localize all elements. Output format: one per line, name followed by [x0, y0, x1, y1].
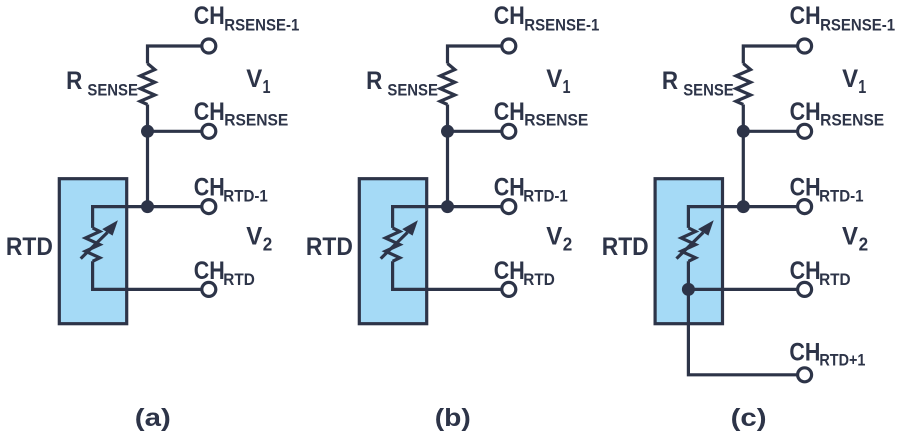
wire: RTD element bottom through bottom tap junction to CH_RTD terminal — [688, 261, 797, 289]
RTD body box — [655, 179, 722, 324]
svg-text:CH: CH — [194, 2, 225, 30]
terminal CH_RTD+1 — [798, 368, 812, 382]
svg-text:RTD-1: RTD-1 — [523, 187, 568, 205]
svg-text:CH: CH — [790, 98, 821, 126]
resistor RSENSE zigzag — [736, 64, 751, 105]
wire: junction down to RTD tap junction — [146, 131, 149, 206]
RTD wiper arrow head — [402, 220, 418, 235]
wire: RTD tap junction to CH_RTD-1 terminal — [148, 205, 203, 208]
svg-text:1: 1 — [563, 77, 571, 97]
circuit (b) labels — [306, 2, 599, 432]
junction dot at RTD top tap node — [441, 200, 454, 213]
wire: RTD element bottom, bend right to CH_RTD terminal — [393, 261, 502, 289]
wire: junction down to RTD tap junction — [742, 131, 745, 206]
svg-text:RTD: RTD — [6, 233, 53, 261]
RTD wiper arrow shaft — [381, 232, 408, 258]
svg-text:RSENSE: RSENSE — [224, 112, 288, 130]
svg-text:SENSE: SENSE — [683, 81, 733, 99]
RTD wiper arrow shaft — [81, 232, 108, 258]
wire: resistor bottom to junction node — [146, 105, 149, 132]
circuit (a) schematic — [59, 39, 216, 324]
terminal CH_RSENSE — [798, 124, 812, 138]
svg-text:2: 2 — [859, 234, 869, 254]
svg-text:CH: CH — [494, 98, 525, 126]
circuit (b) schematic — [359, 39, 516, 324]
svg-text:CH: CH — [494, 257, 525, 285]
svg-text:RTD: RTD — [306, 233, 353, 261]
wire: RTD tap junction to CH_RTD-1 terminal — [448, 205, 503, 208]
svg-text:RSENSE-1: RSENSE-1 — [224, 17, 299, 35]
RTD body box — [359, 179, 426, 324]
RTD variable resistor zigzag — [681, 228, 695, 261]
svg-text:RTD: RTD — [223, 271, 255, 289]
svg-text:CH: CH — [194, 174, 225, 202]
junction dot at resistor bottom node — [441, 125, 454, 138]
junction dot at resistor bottom node — [737, 125, 750, 138]
RTD variable resistor zigzag — [385, 228, 399, 261]
svg-text:2: 2 — [563, 234, 573, 254]
terminal CH_RTD — [202, 282, 216, 296]
svg-text:V: V — [246, 65, 262, 93]
svg-text:1: 1 — [263, 77, 271, 97]
svg-text:R: R — [366, 67, 382, 95]
RTD wiper arrow shaft — [677, 232, 704, 258]
wire: bottom tap junction down out of box, right to CH_RTD+1 terminal — [688, 289, 797, 374]
circuit (c) schematic — [655, 39, 812, 382]
RTD wiper arrow head — [102, 220, 118, 235]
terminal CH_RSENSE-1 — [798, 39, 812, 53]
junction dot at RTD top tap node — [737, 200, 750, 213]
svg-text:V: V — [842, 223, 858, 251]
terminal CH_RTD — [798, 282, 812, 296]
wire: RTD element bottom, bend right to CH_RTD terminal — [93, 261, 202, 289]
svg-text:(c): (c) — [731, 404, 767, 432]
svg-text:2: 2 — [263, 234, 273, 254]
junction dot at RTD bottom tap node — [682, 283, 695, 296]
resistor RSENSE zigzag — [140, 64, 155, 105]
svg-text:SENSE: SENSE — [87, 81, 137, 99]
wire: RTD tap junction left into box, down to RTD element top — [393, 207, 448, 228]
svg-text:RTD-1: RTD-1 — [223, 187, 267, 205]
svg-text:CH: CH — [494, 174, 525, 202]
wire: resistor bottom to junction node — [742, 105, 745, 132]
svg-text:V: V — [546, 223, 562, 251]
circuit (a) labels — [6, 2, 299, 432]
terminal CH_RSENSE — [202, 124, 216, 138]
svg-text:R: R — [662, 67, 678, 95]
svg-text:R: R — [66, 67, 82, 95]
svg-text:(b): (b) — [435, 404, 471, 432]
svg-text:RTD-1: RTD-1 — [819, 187, 864, 205]
wire: resistor bottom to junction node — [446, 105, 449, 132]
svg-text:1: 1 — [858, 77, 866, 97]
svg-text:SENSE: SENSE — [387, 81, 438, 99]
wire: top bend to CH_RSENSE-1 terminal — [148, 46, 203, 64]
wire: junction to CH_RSENSE terminal — [743, 130, 798, 133]
terminal CH_RTD — [502, 282, 516, 296]
RTD variable resistor zigzag — [85, 228, 99, 261]
svg-text:CH: CH — [194, 257, 225, 285]
svg-text:RTD: RTD — [819, 271, 851, 289]
RTD wiper arrow head — [698, 220, 714, 235]
wire: top bend to CH_RSENSE-1 terminal — [448, 46, 503, 64]
terminal CH_RSENSE-1 — [502, 39, 516, 53]
wire: RTD tap junction left into box, down to RTD element top — [93, 207, 148, 228]
circuit (c) labels — [602, 2, 895, 432]
svg-text:RSENSE: RSENSE — [820, 112, 884, 130]
wire: top bend to CH_RSENSE-1 terminal — [743, 46, 798, 64]
svg-text:(a): (a) — [135, 404, 171, 432]
svg-text:RTD+1: RTD+1 — [819, 352, 865, 370]
svg-text:RSENSE-1: RSENSE-1 — [524, 17, 599, 35]
svg-text:V: V — [546, 65, 562, 93]
svg-text:V: V — [246, 223, 262, 251]
junction dot at resistor bottom node — [141, 125, 154, 138]
wire: RTD tap junction to CH_RTD-1 terminal — [743, 205, 798, 208]
svg-text:CH: CH — [790, 174, 821, 202]
terminal CH_RTD-1 — [202, 200, 216, 214]
svg-text:V: V — [842, 65, 858, 93]
RTD body box — [59, 179, 126, 324]
resistor RSENSE zigzag — [440, 64, 455, 105]
junction dot at RTD top tap node — [141, 200, 154, 213]
svg-text:CH: CH — [789, 339, 820, 367]
svg-text:RTD: RTD — [523, 271, 555, 289]
wire: junction down to RTD tap junction — [446, 131, 449, 206]
terminal CH_RSENSE-1 — [202, 39, 216, 53]
wire: junction to CH_RSENSE terminal — [448, 130, 503, 133]
terminal CH_RSENSE — [502, 124, 516, 138]
svg-text:RTD: RTD — [602, 233, 649, 261]
svg-text:RSENSE: RSENSE — [524, 112, 588, 130]
terminal CH_RTD-1 — [798, 200, 812, 214]
terminal CH_RTD-1 — [502, 200, 516, 214]
svg-text:CH: CH — [194, 98, 225, 126]
svg-text:CH: CH — [790, 257, 821, 285]
wire: RTD tap junction left into box, down to RTD element top — [688, 207, 743, 228]
svg-text:CH: CH — [494, 2, 525, 30]
wire: junction to CH_RSENSE terminal — [148, 130, 203, 133]
svg-text:CH: CH — [790, 2, 821, 30]
svg-text:RSENSE-1: RSENSE-1 — [820, 17, 895, 35]
